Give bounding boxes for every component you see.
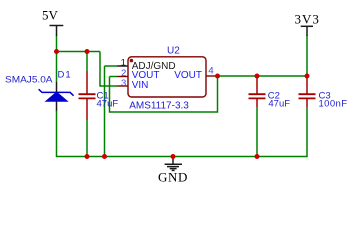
svg-text:100nF: 100nF [319, 98, 348, 109]
svg-text:VIN: VIN [132, 80, 149, 91]
svg-text:D1: D1 [58, 70, 72, 81]
svg-text:47uF: 47uF [268, 98, 290, 109]
svg-text:U2: U2 [167, 46, 180, 57]
svg-text:47uF: 47uF [97, 98, 119, 109]
svg-text:3: 3 [121, 78, 126, 89]
svg-text:AMS1117-3.3: AMS1117-3.3 [129, 101, 189, 112]
svg-text:SMAJ5.0A: SMAJ5.0A [5, 75, 53, 85]
svg-text:GND: GND [158, 170, 188, 185]
svg-text:4: 4 [208, 66, 213, 77]
svg-text:VOUT: VOUT [174, 70, 202, 81]
svg-text:5V: 5V [42, 8, 59, 23]
svg-text:3V3: 3V3 [295, 12, 320, 27]
